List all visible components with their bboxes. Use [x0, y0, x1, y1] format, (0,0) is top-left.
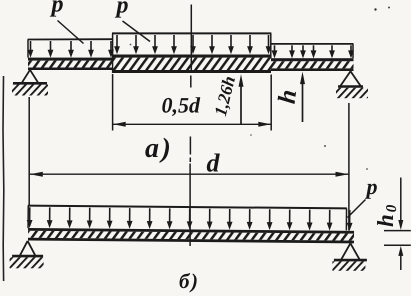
leader line p centre — [123, 21, 151, 42]
dimension line d — [30, 173, 349, 175]
distributed load block right (a) — [271, 43, 353, 45]
extension line left (0,5d) — [112, 74, 114, 131]
svg-text:0,5d: 0,5d — [162, 93, 202, 118]
beam (a) thin right segment — [271, 58, 354, 61]
extension line right (d) — [348, 103, 350, 231]
pin support top-left — [22, 70, 39, 84]
dimension line h0 lower — [400, 250, 402, 270]
extension line right (0,5d) — [270, 75, 272, 131]
pin support top-right — [340, 71, 361, 86]
dimension line h0 upper — [400, 178, 402, 227]
load arrows centre block (a) — [116, 35, 118, 49]
extension line beam bottom (h0) — [384, 244, 411, 246]
beam (a) thick central slab — [112, 55, 271, 58]
load arrows (b) — [29, 207, 31, 222]
centerline (diagram a) — [190, 5, 192, 74]
scan edge artifact — [2, 76, 5, 281]
svg-text:d: d — [207, 149, 221, 178]
extension line left (d) — [28, 97, 30, 207]
extension line beam top (h0) — [384, 230, 411, 232]
pin support bottom-right — [341, 243, 360, 260]
svg-text:p: p — [50, 0, 64, 18]
load arrows right block (a) — [274, 45, 276, 53]
dimension line 0,5d — [113, 123, 271, 125]
distributed load block centre raised (a) — [112, 32, 271, 34]
beam (a) thin left segment — [28, 58, 113, 61]
svg-text:а): а) — [145, 133, 173, 164]
scan specks — [374, 8, 376, 10]
pin support bottom-left — [20, 241, 36, 256]
load arrows left block (a) — [30, 41, 32, 52]
svg-text:б): б) — [179, 269, 199, 293]
distributed load block (b) — [28, 206, 347, 209]
dimension arrow 1,26h — [240, 79, 242, 124]
leader line p (b) — [348, 200, 366, 218]
svg-text:p: p — [365, 174, 378, 199]
leader line p left — [58, 21, 84, 44]
dimension arrow h — [302, 77, 304, 123]
beam (b) — [28, 228, 354, 234]
distributed load block left (a) — [28, 38, 113, 40]
svg-text:p: p — [115, 0, 129, 19]
